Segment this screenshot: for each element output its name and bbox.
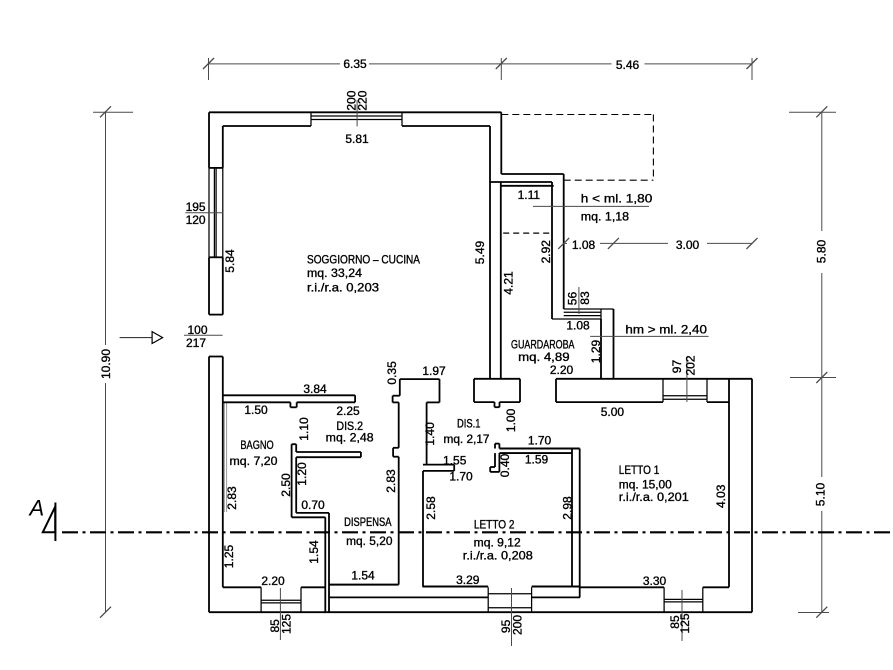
leader 97/202 — [686, 357, 688, 402]
underline hm > ml. 2,40 — [590, 335, 709, 337]
outer wall right — [729, 379, 752, 612]
svg-text:5.84: 5.84 — [223, 249, 237, 273]
duct notch left — [393, 396, 400, 403]
dashed roof outline — [501, 115, 653, 181]
wall V1 dispensa east — [398, 402, 400, 584]
outer wall left middle — [209, 257, 223, 314]
svg-text:DISPENSA: DISPENSA — [344, 515, 391, 529]
right dimension line 5.80/5.10 — [789, 112, 836, 612]
wall 1.29 guardaroba east lower — [601, 309, 614, 379]
ticks top — [203, 58, 758, 69]
svg-text:r.i./r.a. 0,203: r.i./r.a. 0,203 — [307, 280, 379, 294]
top dimension line — [209, 58, 753, 80]
bagno/dis.2 north wall — [223, 395, 355, 402]
svg-text:1.00: 1.00 — [504, 408, 518, 432]
notch V1 lower — [393, 448, 399, 457]
bagno east wall — [292, 444, 297, 517]
svg-text:A: A — [28, 496, 45, 521]
svg-text:mq. 7,20: mq. 7,20 — [230, 454, 278, 468]
entrance door opening 100/217 — [209, 356, 223, 358]
svg-text:0.35: 0.35 — [385, 361, 399, 385]
svg-text:2.98: 2.98 — [560, 496, 574, 520]
window 85/125 bagno bottom — [261, 587, 301, 612]
leader 56/83 — [578, 287, 580, 314]
svg-text:1.08: 1.08 — [572, 238, 596, 252]
svg-text:5.46: 5.46 — [616, 58, 640, 72]
svg-text:3.84: 3.84 — [303, 382, 327, 396]
soggiorno east wall — [490, 126, 501, 379]
svg-text:4.21: 4.21 — [501, 271, 515, 295]
svg-text:4.03: 4.03 — [714, 484, 728, 508]
letto2 north wall — [499, 449, 579, 454]
svg-text:1.70: 1.70 — [528, 434, 552, 448]
svg-text:2.92: 2.92 — [539, 240, 553, 264]
svg-text:1.50: 1.50 — [244, 403, 268, 417]
svg-text:125: 125 — [279, 614, 293, 634]
bagno east wall jog 0.70 — [292, 513, 329, 517]
dis.1 south wall — [423, 465, 454, 471]
svg-text:200: 200 — [511, 615, 525, 635]
window 97/202 in thick wall — [663, 379, 707, 402]
svg-text:r.i./r.a. 0,208: r.i./r.a. 0,208 — [463, 548, 533, 562]
svg-text:1.10: 1.10 — [297, 417, 311, 441]
letto1 north thick wall — [556, 379, 752, 402]
guardaroba thin top wall — [501, 185, 554, 187]
letto1/letto2 divider wall — [572, 449, 580, 598]
svg-text:1.11: 1.11 — [518, 188, 541, 202]
svg-text:1.08: 1.08 — [566, 319, 590, 333]
svg-text:202: 202 — [684, 355, 698, 375]
svg-text:0.40: 0.40 — [498, 453, 512, 477]
outer wall top — [209, 112, 501, 126]
svg-text:0.70: 0.70 — [301, 498, 325, 512]
svg-text:BAGNO: BAGNO — [240, 438, 273, 452]
svg-text:2.83: 2.83 — [225, 486, 239, 510]
svg-text:mq. 2,48: mq. 2,48 — [326, 431, 374, 445]
svg-text:1.70: 1.70 — [449, 470, 473, 484]
svg-text:mq. 9,12: mq. 9,12 — [474, 535, 521, 549]
outer wall left lower — [209, 357, 223, 613]
door-window 95/200 letto2 bottom — [488, 587, 531, 612]
window 200/220 top wall — [311, 112, 402, 126]
svg-text:220: 220 — [355, 90, 369, 110]
svg-text:SOGGIORNO – CUCINA: SOGGIORNO – CUCINA — [307, 253, 420, 267]
svg-text:2.20: 2.20 — [550, 363, 574, 377]
entrance arrow — [120, 332, 163, 344]
svg-text:97: 97 — [670, 360, 684, 374]
svg-text:1.59: 1.59 — [525, 453, 549, 467]
svg-text:hm > ml. 2,40: hm > ml. 2,40 — [625, 322, 707, 336]
svg-text:125: 125 — [678, 613, 692, 633]
svg-text:mq. 5,20: mq. 5,20 — [346, 534, 393, 548]
window 85/125 letto1 bottom — [664, 587, 703, 612]
dim line 1.08 / 3.00 sottotetto — [564, 242, 752, 244]
svg-text:100: 100 — [187, 323, 207, 337]
door label leader 100/217 — [184, 334, 223, 336]
svg-text:5.49: 5.49 — [473, 240, 487, 264]
top-right wall leg at soggiorno corner — [500, 112, 502, 174]
svg-text:1.55: 1.55 — [443, 453, 467, 467]
svg-text:6.35: 6.35 — [343, 57, 367, 71]
section marker A — [43, 503, 56, 542]
svg-text:1.97: 1.97 — [422, 364, 446, 378]
door jamb notch bagno — [290, 402, 296, 407]
svg-text:5.10: 5.10 — [813, 482, 827, 506]
duct block 1.97 top — [400, 379, 440, 402]
svg-text:3.29: 3.29 — [456, 573, 480, 587]
opening 56/83 guardaroba — [552, 309, 614, 319]
svg-text:10.90: 10.90 — [99, 349, 113, 379]
wall dis.1 west — [426, 402, 428, 464]
svg-text:h < ml. 1,80: h < ml. 1,80 — [581, 192, 653, 206]
dashed h-1.80 line in guardaroba — [503, 232, 552, 234]
svg-text:mq. 2,17: mq. 2,17 — [444, 432, 490, 446]
svg-text:DIS.1: DIS.1 — [457, 417, 481, 431]
svg-text:mq. 33,24: mq. 33,24 — [307, 266, 362, 280]
leader 85/125 bagno — [279, 588, 281, 640]
bagno east wall lower — [325, 513, 329, 612]
svg-text:1.20: 1.20 — [295, 462, 309, 486]
underline h < ml. 1,80 — [533, 205, 649, 207]
svg-text:1.54: 1.54 — [351, 569, 375, 583]
leader 95/200 letto2 — [511, 588, 513, 646]
svg-text:5.81: 5.81 — [345, 132, 369, 146]
svg-text:5.80: 5.80 — [815, 239, 829, 263]
window label leader 195/120 — [185, 212, 223, 214]
svg-text:120: 120 — [186, 213, 206, 227]
svg-text:mq. 1,18: mq. 1,18 — [581, 210, 630, 224]
svg-text:2.83: 2.83 — [384, 469, 398, 493]
outer wall bottom — [209, 585, 752, 613]
svg-text:r.i./r.a. 0,201: r.i./r.a. 0,201 — [619, 490, 689, 504]
left dimension line 10.90 — [93, 112, 133, 612]
dis.2 south wall — [296, 452, 361, 457]
svg-text:2.58: 2.58 — [424, 496, 438, 520]
horizontal wall above guardaroba — [490, 174, 564, 182]
window label leader 200/220 — [356, 100, 358, 126]
svg-text:83: 83 — [578, 291, 592, 305]
svg-text:1.54: 1.54 — [307, 540, 321, 564]
section line A-A — [62, 531, 893, 533]
svg-text:LETTO 1: LETTO 1 — [619, 463, 660, 477]
bagno wall tile strip — [224, 402, 226, 512]
outer wall left upper — [209, 112, 223, 168]
door jamb notch below block — [495, 402, 500, 407]
svg-text:2.25: 2.25 — [336, 404, 360, 418]
svg-text:195: 195 — [186, 200, 206, 214]
svg-text:3.30: 3.30 — [643, 574, 667, 588]
svg-text:2.20: 2.20 — [261, 574, 285, 588]
svg-text:1.25: 1.25 — [222, 544, 236, 568]
letto2 door jamb L — [490, 444, 499, 472]
svg-text:217: 217 — [186, 336, 206, 350]
wall block dis.1 north — [474, 379, 520, 402]
svg-text:5.00: 5.00 — [601, 405, 625, 419]
svg-text:1.40: 1.40 — [423, 422, 437, 446]
guardaroba east wall upper — [552, 174, 564, 319]
svg-text:3.00: 3.00 — [676, 238, 700, 252]
window 195/120 left wall — [209, 168, 223, 257]
svg-text:2.50: 2.50 — [279, 473, 293, 497]
svg-text:1.29: 1.29 — [589, 339, 603, 363]
svg-text:LETTO 2: LETTO 2 — [474, 518, 515, 532]
wall V2 letto2 west — [422, 471, 424, 587]
leader 85/125 letto1 — [681, 590, 683, 641]
